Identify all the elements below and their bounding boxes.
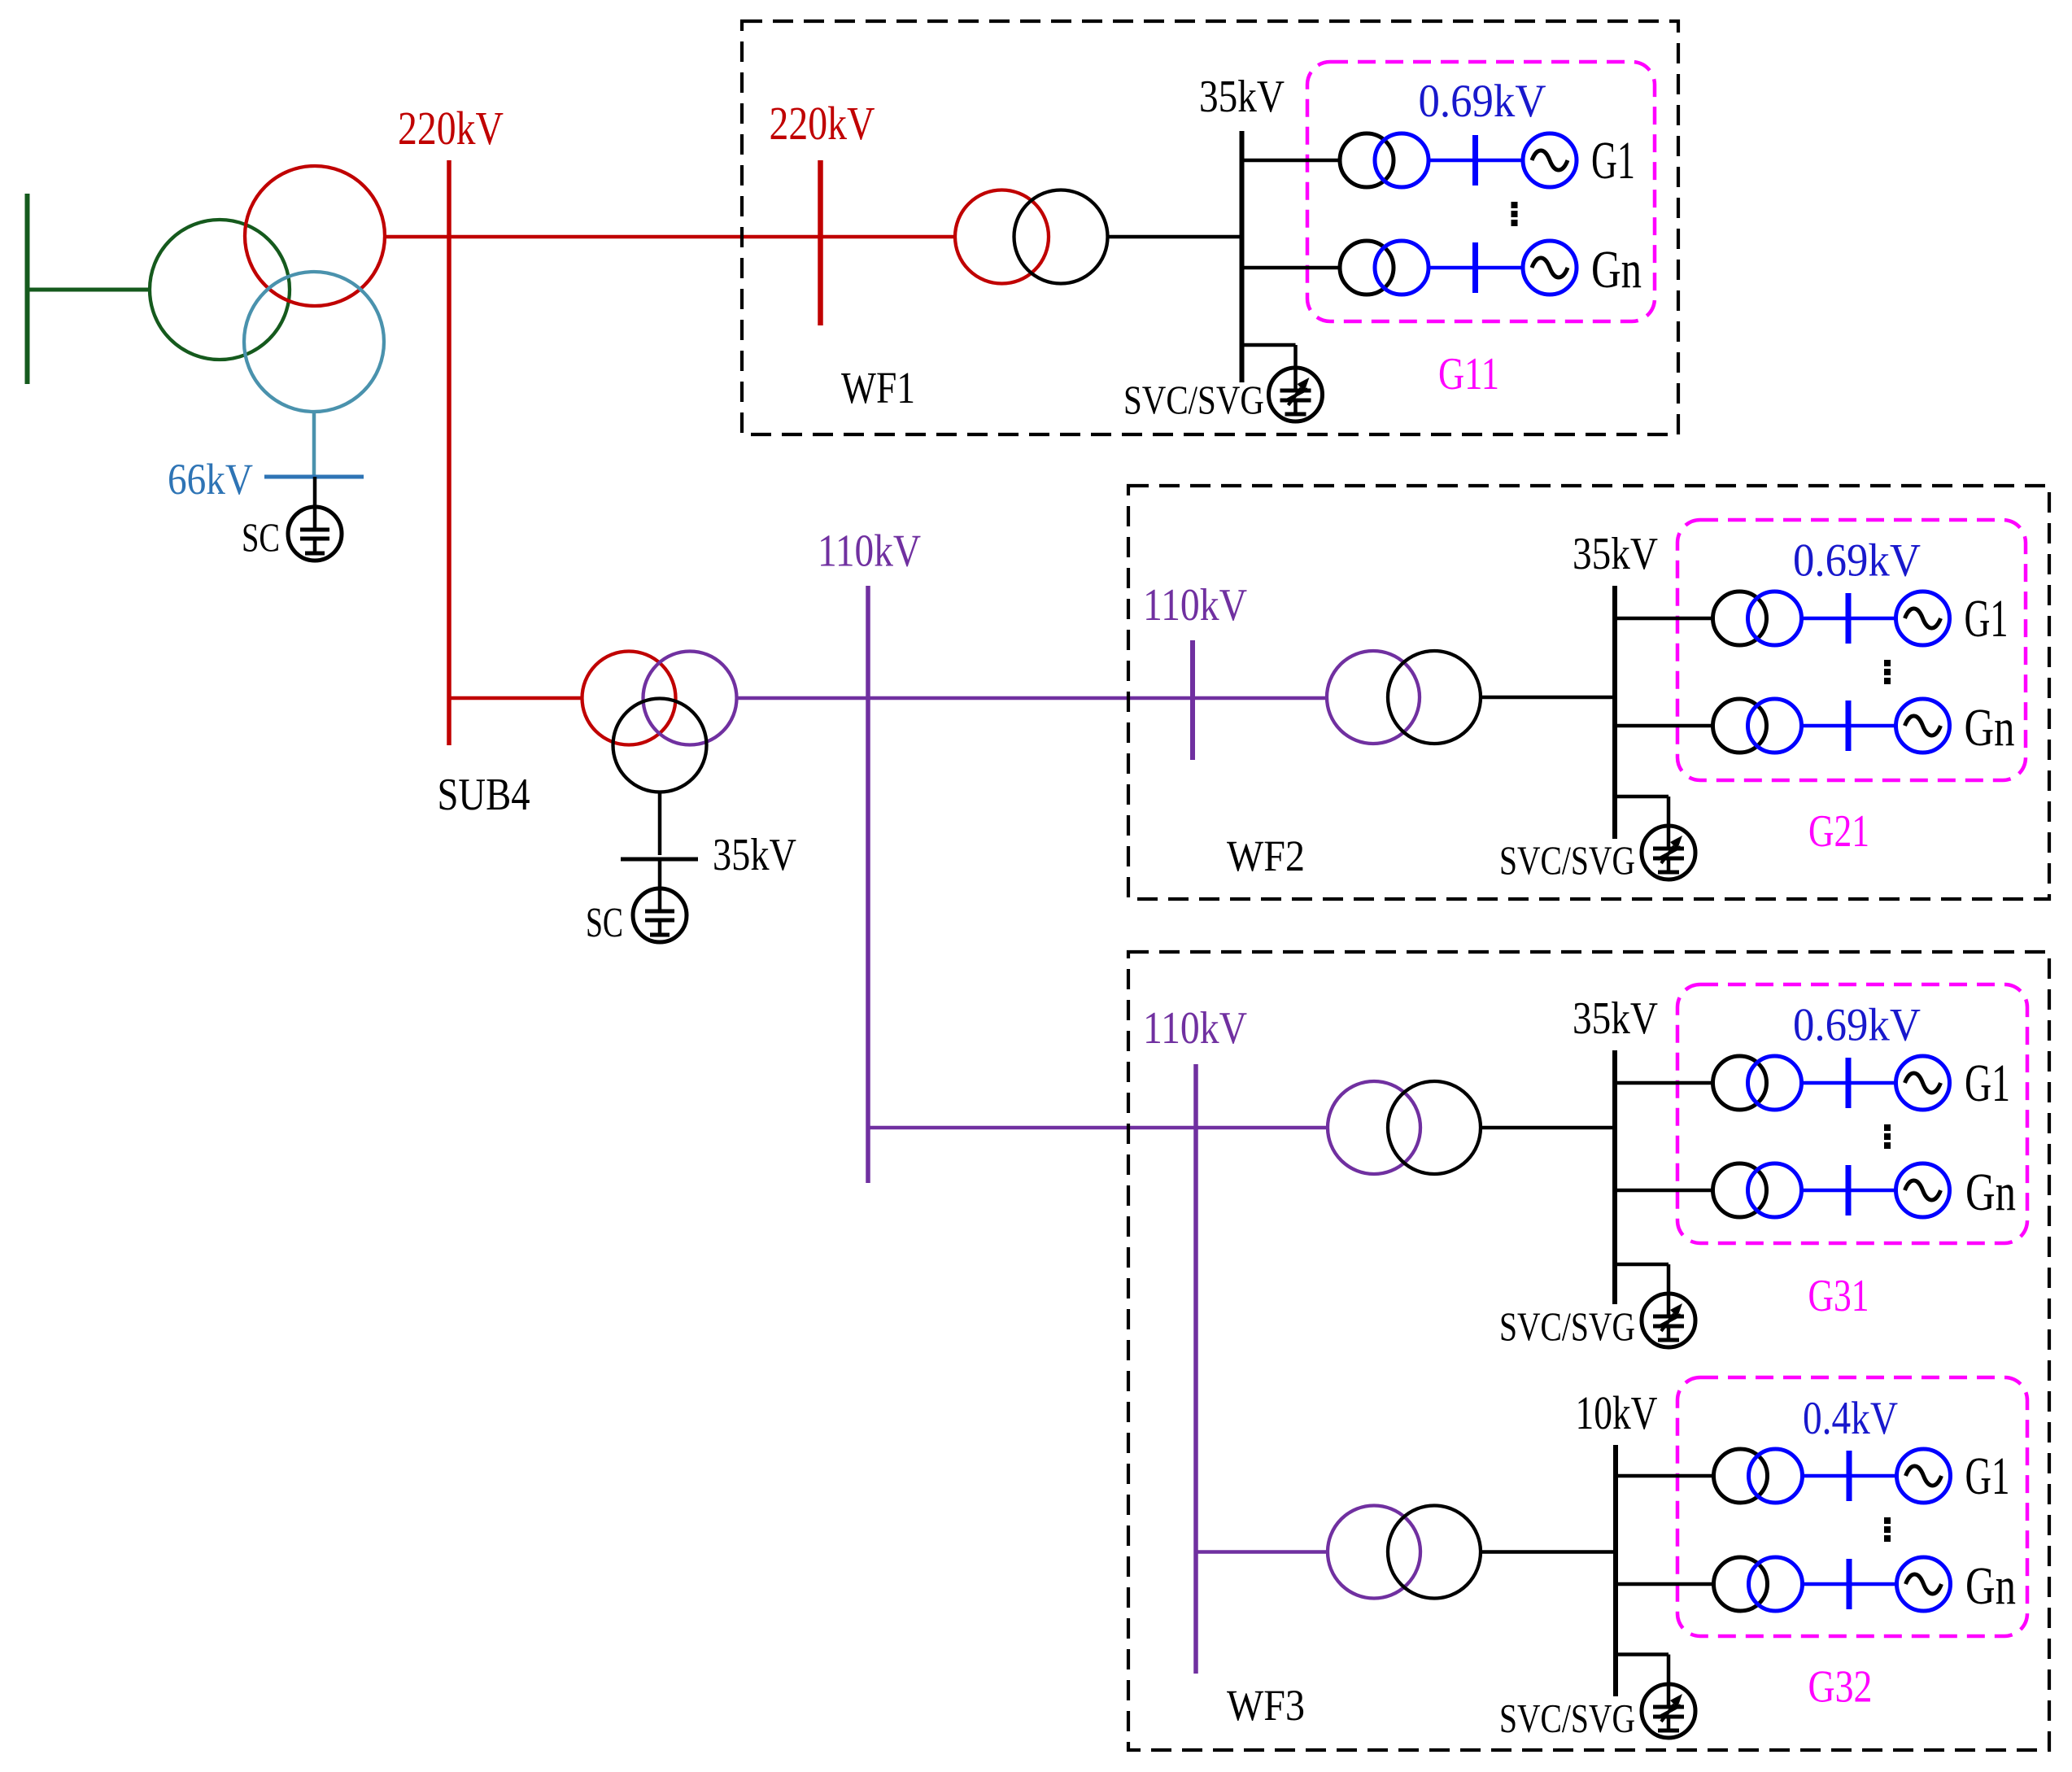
svg-text:35kV: 35kV: [1199, 72, 1285, 122]
svg-text:220kV: 220kV: [770, 97, 875, 150]
svg-text:35kV: 35kV: [1573, 993, 1658, 1044]
svg-text:0.69kV: 0.69kV: [1793, 535, 1921, 587]
svg-text:SVC/SVG: SVC/SVG: [1499, 1696, 1635, 1741]
svg-text:SC: SC: [242, 514, 280, 560]
svg-text:0.69kV: 0.69kV: [1419, 76, 1546, 127]
svg-text:Gn: Gn: [1965, 1163, 2016, 1222]
svg-text:G1: G1: [1965, 1447, 2010, 1506]
svg-text:Gn: Gn: [1591, 240, 1642, 299]
svg-text:G21: G21: [1808, 806, 1869, 857]
svg-text:WF2: WF2: [1227, 831, 1305, 880]
svg-text:35kV: 35kV: [1573, 529, 1658, 579]
svg-text:0.69kV: 0.69kV: [1793, 1000, 1921, 1051]
svg-text:66kV: 66kV: [168, 455, 253, 504]
svg-text:WF1: WF1: [841, 363, 915, 412]
svg-text:10kV: 10kV: [1576, 1386, 1658, 1439]
svg-text:Gn: Gn: [1965, 698, 2015, 757]
svg-text:0.4kV: 0.4kV: [1803, 1393, 1898, 1444]
svg-text:35kV: 35kV: [713, 830, 796, 880]
svg-text:220kV: 220kV: [398, 102, 504, 155]
svg-text:G31: G31: [1808, 1271, 1869, 1321]
svg-text:110kV: 110kV: [1143, 1003, 1247, 1054]
svg-text:SUB4: SUB4: [438, 770, 530, 820]
svg-text:G32: G32: [1808, 1662, 1873, 1713]
svg-text:SVC/SVG: SVC/SVG: [1123, 377, 1264, 422]
svg-text:G1: G1: [1965, 589, 2009, 648]
svg-text:110kV: 110kV: [1143, 580, 1247, 631]
svg-text:Gn: Gn: [1965, 1556, 2016, 1616]
svg-text:WF3: WF3: [1227, 1681, 1305, 1730]
svg-text:110kV: 110kV: [818, 526, 921, 577]
svg-text:SVC/SVG: SVC/SVG: [1499, 1303, 1635, 1349]
svg-text:G11: G11: [1438, 349, 1499, 399]
svg-text:G1: G1: [1591, 131, 1635, 190]
svg-text:G1: G1: [1965, 1054, 2010, 1113]
svg-text:SC: SC: [586, 900, 623, 946]
svg-text:SVC/SVG: SVC/SVG: [1499, 837, 1635, 883]
